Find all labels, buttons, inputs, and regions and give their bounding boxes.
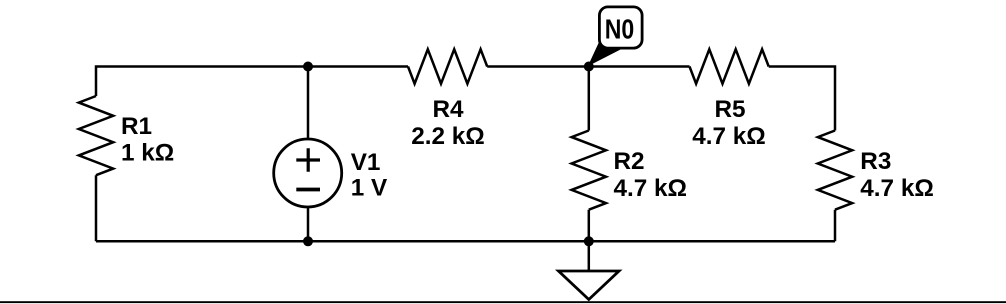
wire V1 branch [307, 67, 310, 242]
svg-text:1 kΩ: 1 kΩ [121, 140, 174, 167]
svg-text:V1: V1 [351, 149, 381, 176]
svg-text:4.7 kΩ: 4.7 kΩ [614, 175, 688, 202]
node N0 junction dot [584, 62, 594, 72]
bottom border line [0, 301, 1006, 303]
svg-text:R1: R1 [121, 113, 152, 140]
wire R5 to top-right corner and right rail [769, 67, 835, 242]
svg-text:4.7 kΩ: 4.7 kΩ [692, 123, 766, 150]
node N0 label box [599, 7, 642, 48]
wire top-left to R4: left rail top segment and top wire [96, 67, 408, 242]
resistor R5 [690, 49, 769, 83]
node N0 callout wedge [588, 41, 622, 66]
wire node N0 to R5 [589, 65, 690, 68]
V1 minus sign [296, 188, 320, 192]
svg-text:R2: R2 [614, 148, 645, 175]
wire R2 branch [588, 67, 591, 242]
svg-text:R3: R3 [860, 148, 891, 175]
svg-text:R4: R4 [432, 96, 464, 123]
junction dot bottom R2 [584, 236, 594, 246]
junction dot bottom V1 [303, 236, 313, 246]
svg-text:R5: R5 [714, 96, 745, 123]
svg-text:4.7 kΩ: 4.7 kΩ [860, 175, 934, 202]
junction dot top V1 [303, 62, 313, 72]
resistor R1 [79, 96, 113, 175]
wire R4 to node N0 [487, 65, 589, 68]
svg-text:2.2 kΩ: 2.2 kΩ [411, 123, 485, 150]
ground stem [588, 241, 591, 271]
svg-text:1 V: 1 V [351, 175, 388, 202]
resistor R4 [408, 49, 487, 83]
resistor R3 [818, 131, 852, 210]
wire bottom rail [96, 240, 835, 243]
svg-text:N0: N0 [605, 14, 635, 45]
V1 plus sign [296, 148, 320, 172]
voltage source V1 [274, 139, 342, 207]
ground symbol [559, 271, 620, 300]
resistor R2 [572, 131, 606, 210]
